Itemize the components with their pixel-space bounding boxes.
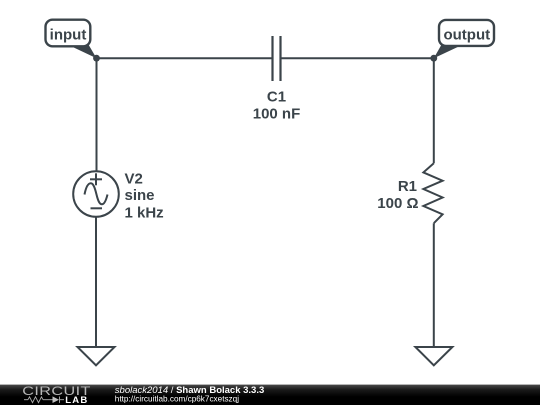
svg-text:input: input [50,27,87,44]
svg-text:V2: V2 [125,171,143,188]
svg-text:LAB: LAB [65,395,88,405]
svg-text:sine: sine [125,187,155,204]
svg-text:1 kHz: 1 kHz [125,205,164,222]
svg-text:http://circuitlab.com/cp6k7cxe: http://circuitlab.com/cp6k7cxetszqj [115,395,239,404]
svg-text:R1: R1 [398,178,417,195]
svg-text:100 Ω: 100 Ω [377,195,418,212]
svg-text:output: output [443,27,490,44]
svg-text:100 nF: 100 nF [253,106,301,123]
svg-text:C1: C1 [267,89,286,106]
